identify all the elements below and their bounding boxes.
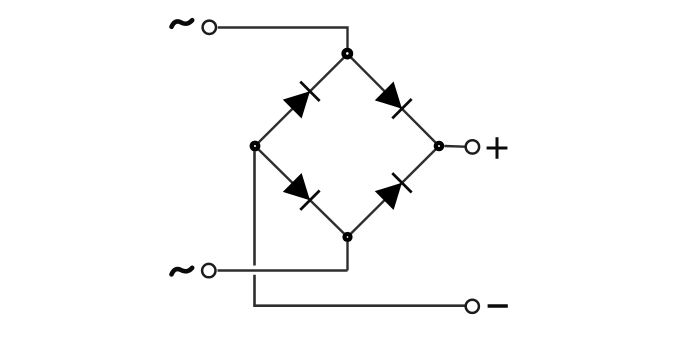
AC source symbol (tilde) terminal 1 <box>172 20 193 27</box>
AC terminal 1 circle <box>203 21 216 34</box>
plus sign label <box>487 137 508 159</box>
junction node: top <box>341 48 353 60</box>
- output terminal circle <box>466 300 479 313</box>
wire: left node down, upper segment (crossover break at AC2 wire) <box>253 151 256 266</box>
junction node: left <box>250 141 261 152</box>
wire: AC terminal 2 to bottom node <box>218 269 348 271</box>
wire: top node to left node <box>255 54 348 146</box>
diode D1 (left node to top node) <box>283 82 320 119</box>
junction node: bottom <box>342 232 352 242</box>
diode D2 (top node to right node) <box>375 81 412 118</box>
wire: top node to right node <box>348 54 440 146</box>
wire: right node to + terminal <box>445 145 466 148</box>
diode D4 (bottom node to right node) <box>375 173 412 210</box>
minus sign label <box>488 304 508 307</box>
wire: bottom node down to AC2 wire <box>346 242 348 271</box>
+ output terminal circle <box>466 140 479 153</box>
AC terminal 2 circle <box>202 264 215 277</box>
diode D3 (left node to bottom node) <box>283 173 320 210</box>
wire: AC terminal 1 to top node <box>218 28 348 55</box>
junction node: right <box>434 141 445 152</box>
wire: bottom node to right node <box>348 146 440 237</box>
wire: left node to bottom node <box>255 146 348 237</box>
wire: left node down lower segment, to - terminal <box>255 275 466 306</box>
AC source symbol (tilde) terminal 2 <box>172 268 193 275</box>
